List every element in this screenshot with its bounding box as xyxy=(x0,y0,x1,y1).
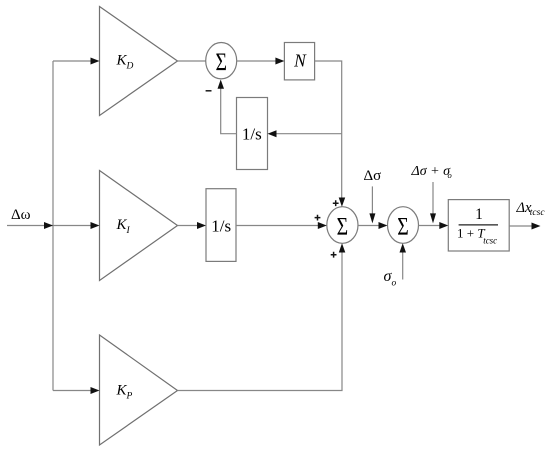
arrowhead: delta-sigma pointer xyxy=(369,213,375,223)
wire: KD apex to sum1 xyxy=(178,60,206,62)
svg-text:P: P xyxy=(126,392,133,402)
arrowhead: into sum3 left xyxy=(379,222,388,229)
amplifier KI triangle xyxy=(100,171,178,281)
arrowhead: into KP xyxy=(91,387,100,394)
svg-text:1/s: 1/s xyxy=(242,125,262,144)
block 1/s top rectangle xyxy=(237,98,268,170)
wire: sum1 to N xyxy=(237,60,277,62)
svg-text:Δσ: Δσ xyxy=(364,168,382,184)
plus sign left of main sum xyxy=(315,215,321,221)
wire: 1/s top output left and up to sum1 xyxy=(221,88,237,134)
arrowhead: into N xyxy=(275,58,284,65)
amplifier KD triangle xyxy=(100,7,178,116)
arrowhead: up into sum1 bottom xyxy=(218,80,225,89)
arrowhead: into 1/s mid xyxy=(197,222,206,229)
svg-text:Δσ + σ: Δσ + σ xyxy=(411,164,452,179)
svg-text:Σ: Σ xyxy=(397,213,409,240)
plus sign bottom of main sum xyxy=(331,252,337,258)
arrowhead: into KD xyxy=(91,58,100,65)
svg-text:1: 1 xyxy=(475,206,483,223)
svg-text:tcsc: tcsc xyxy=(483,235,497,245)
svg-text:N: N xyxy=(293,50,307,70)
wire: mid branch to KI xyxy=(53,225,92,227)
summing junction S3 xyxy=(388,207,419,244)
wire: KP output right and up to main sum xyxy=(178,252,343,391)
wire: output line xyxy=(509,225,532,227)
fraction bar in transfer block xyxy=(459,224,498,226)
arrowhead: up into sum3 bottom (sigma_o) xyxy=(400,243,407,252)
wire: sigma_o label arrow shaft xyxy=(402,252,404,280)
arrowhead: delta-sigma+sigma_o pointer xyxy=(430,213,436,223)
svg-text:1 + T: 1 + T xyxy=(457,225,485,240)
arrowhead: into main sum left xyxy=(318,222,327,229)
summing junction S2 (main) xyxy=(327,207,358,244)
arrowhead: into KI xyxy=(91,222,100,229)
svg-text:o: o xyxy=(448,170,452,180)
wire: 1/s mid output to main sum xyxy=(236,225,320,227)
amplifier KP triangle xyxy=(100,335,178,445)
wire: delta-sigma label arrow shaft xyxy=(371,186,373,214)
svg-text:D: D xyxy=(126,62,134,72)
summing junction S1 (top) xyxy=(206,43,237,79)
wire: delta-sigma+sigma_o label arrow shaft xyxy=(432,182,434,214)
arrowhead: final output xyxy=(532,223,541,230)
svg-text:Σ: Σ xyxy=(215,49,227,76)
plus sign top of main sum xyxy=(333,200,339,206)
wire: input Δω horizontal xyxy=(7,225,53,227)
arrowhead: into 1/s top (pointing left) xyxy=(268,130,277,137)
arrowhead: into transfer block xyxy=(439,222,448,229)
wire: bottom branch to KP xyxy=(53,390,92,392)
svg-text:Σ: Σ xyxy=(337,213,349,240)
wire: top branch to KD xyxy=(53,60,92,62)
svg-text:tcsc: tcsc xyxy=(530,208,546,218)
wire: N output right then down to sum main xyxy=(315,61,342,199)
block 1/s mid rectangle xyxy=(206,189,236,262)
svg-text:Δω: Δω xyxy=(11,207,31,223)
arrowhead: down into main sum top xyxy=(339,198,346,207)
arrowhead: up into main sum bottom xyxy=(339,243,346,252)
svg-text:o: o xyxy=(392,279,397,289)
wire: main sum to sum3 xyxy=(358,225,381,227)
svg-text:1/s: 1/s xyxy=(211,217,231,236)
wire: sum3 to transfer block xyxy=(419,225,442,227)
wire: feedback tap to 1/s top xyxy=(276,133,342,135)
block N rectangle xyxy=(284,43,314,80)
minus sign at sum1 xyxy=(206,90,212,92)
wire: KI apex to 1/s mid xyxy=(178,225,199,227)
wire: vertical bus xyxy=(52,61,54,391)
arrowhead: input at bus xyxy=(44,222,53,229)
block transfer function rectangle xyxy=(448,200,509,251)
